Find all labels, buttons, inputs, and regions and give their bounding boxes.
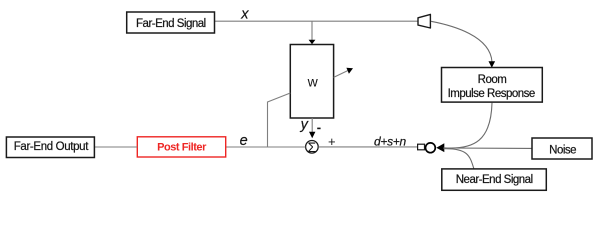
arrow: weight-update (diagonal from W) [334,70,349,77]
label minus sign at summer [317,127,320,129]
box W (adaptive filter) [290,45,333,119]
wire: post filter to far-end output [94,146,137,148]
svg-text:Room: Room [478,74,507,86]
svg-text:x: x [240,6,249,22]
svg-text:Σ: Σ [308,140,317,155]
svg-text:Noise: Noise [549,144,576,156]
box Post Filter [137,137,225,157]
svg-text:Far-End Output: Far-End Output [14,141,90,153]
wire: microphone to summer (d+s+n) [318,146,417,148]
wire: error feedback up to W [268,93,291,147]
svg-text:d+s+n: d+s+n [374,134,406,148]
box Room Impulse Response [442,68,543,103]
wire: tap down into adaptive filter W [311,21,313,40]
box Near-End Signal [442,169,547,190]
arrowhead into summer [309,132,315,139]
wire: W output y down to summer [311,118,313,133]
svg-text:e: e [240,133,248,149]
wire: summer to post filter (error e) [226,146,306,148]
svg-text:Post Filter: Post Filter [157,141,207,153]
arrowhead into room impulse response [489,61,496,67]
box Noise [532,138,592,159]
wire: room impulse response to microphone (echo path) [444,103,493,148]
wire: noise to microphone [444,147,533,149]
arrowhead into W box [309,40,316,45]
wire: far-end signal to loudspeaker [215,20,419,22]
svg-text:w: w [307,74,319,90]
summer node (sigma) [306,140,319,155]
svg-text:y: y [300,117,309,133]
loudspeaker [418,14,430,28]
wire: loudspeaker to room impulse response (acoustic path curve) [431,21,492,62]
svg-text:Near-End Signal: Near-End Signal [456,174,533,186]
microphone (square + circle) [418,143,436,153]
arrowhead into microphone (shared by echo, noise, near-end paths) [436,143,444,152]
arrowhead of weight-update arrow [346,68,353,74]
box Far-End Output [6,137,94,158]
wire: near-end signal to microphone [444,149,475,170]
svg-text:Impulse Response: Impulse Response [448,88,535,100]
box Far-End Signal [127,12,215,33]
svg-text:Far-End Signal: Far-End Signal [136,18,206,30]
